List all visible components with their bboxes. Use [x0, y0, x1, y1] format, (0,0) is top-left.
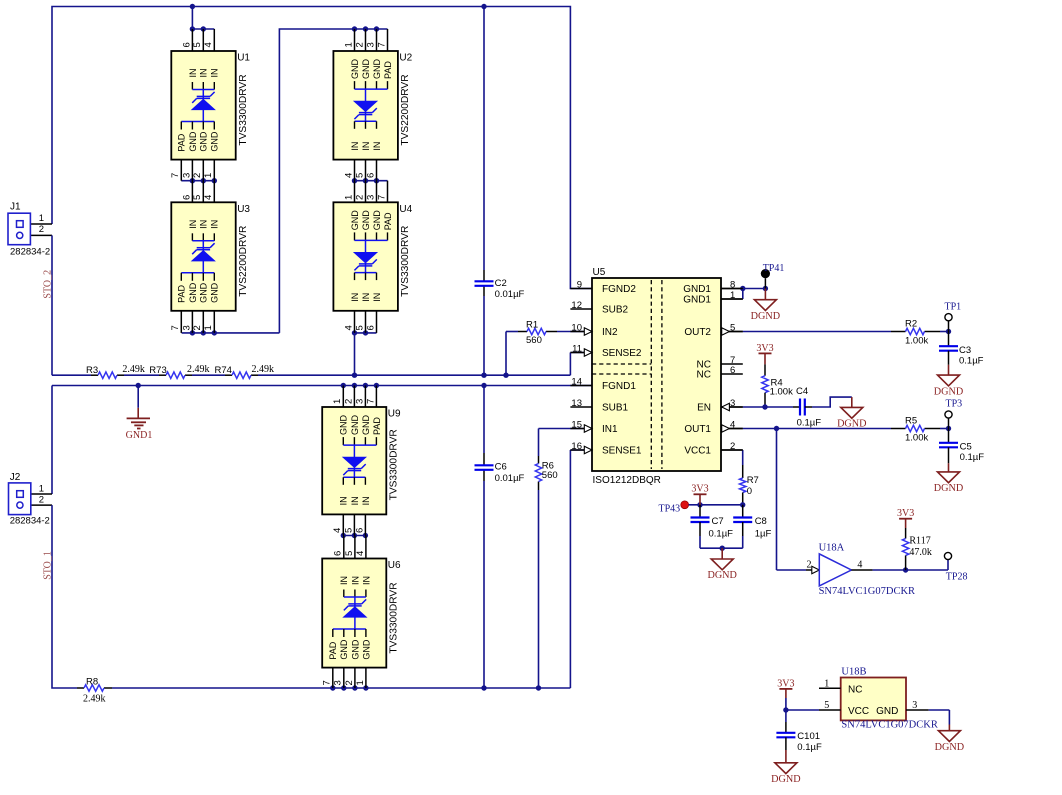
- svg-text:IN: IN: [372, 142, 382, 151]
- svg-text:DGND: DGND: [935, 742, 964, 753]
- svg-text:J2: J2: [10, 472, 21, 483]
- svg-text:0.01µF: 0.01µF: [495, 473, 525, 484]
- svg-text:3: 3: [912, 700, 917, 711]
- net label STO_1: [43, 551, 54, 580]
- ground DGND at C3: [934, 365, 963, 398]
- capacitor C101 0.1uF: [776, 710, 822, 753]
- svg-text:7: 7: [365, 399, 376, 404]
- buffer U18B SN74LVC1G07DCKR: [819, 667, 938, 731]
- svg-text:IN: IN: [350, 293, 360, 302]
- junction top rail at U1 column: [190, 4, 195, 9]
- svg-text:SENSE2: SENSE2: [602, 348, 642, 359]
- svg-text:2: 2: [807, 560, 812, 571]
- junction FGND1 at C6 column: [481, 383, 486, 388]
- svg-text:560: 560: [542, 470, 558, 481]
- svg-text:0.1µF: 0.1µF: [960, 452, 985, 463]
- wire STO_1 left rail: [51, 386, 53, 495]
- testpoint TP3: [945, 399, 962, 429]
- svg-text:47.0k: 47.0k: [909, 547, 932, 558]
- wire U1 pins 6 5 4 tie bus: [190, 7, 215, 32]
- wire U3 bottom bus: [182, 330, 280, 335]
- svg-text:2: 2: [39, 224, 44, 235]
- svg-text:IN: IN: [361, 496, 371, 505]
- svg-text:TVS3300DRVR: TVS3300DRVR: [389, 582, 400, 653]
- svg-text:3V3: 3V3: [691, 484, 708, 495]
- svg-text:IN: IN: [361, 576, 371, 585]
- svg-text:GND: GND: [361, 59, 371, 80]
- svg-text:PAD: PAD: [383, 212, 393, 230]
- TVS diode U4 TVS3300DRVR: [333, 181, 412, 333]
- svg-text:PAD: PAD: [383, 61, 393, 79]
- wire U4 bottom bus to SENSE2 row: [352, 330, 377, 375]
- svg-text:C7: C7: [712, 516, 724, 527]
- svg-text:3: 3: [333, 680, 344, 685]
- wire EN row: [721, 404, 793, 409]
- junction bottom rail at C6 column: [481, 685, 486, 690]
- wire VCC1 to R7: [721, 450, 743, 465]
- svg-text:1: 1: [39, 483, 44, 494]
- svg-text:ISO1212DBQR: ISO1212DBQR: [593, 475, 661, 486]
- svg-text:TVS3300DRVR: TVS3300DRVR: [400, 226, 411, 297]
- svg-text:R73: R73: [149, 365, 166, 376]
- svg-text:GND: GND: [210, 131, 220, 152]
- svg-text:STO_1: STO_1: [43, 551, 54, 580]
- svg-text:GND: GND: [350, 415, 360, 436]
- resistor R1 560: [526, 320, 546, 346]
- junction SENSE2 row at U4 column: [352, 373, 357, 378]
- wire FGND1 row: [52, 385, 592, 387]
- svg-text:R2: R2: [905, 319, 917, 330]
- svg-text:5: 5: [354, 173, 365, 178]
- resistor R8 2.49k: [83, 677, 106, 705]
- capacitor C5 0.1uF: [939, 429, 984, 464]
- ground DGND at TP41: [751, 289, 780, 322]
- junction FGND1 at GND1 branch: [136, 383, 141, 388]
- svg-text:U1: U1: [237, 53, 250, 64]
- svg-text:0.1µF: 0.1µF: [959, 355, 984, 366]
- svg-text:U2: U2: [399, 53, 412, 64]
- svg-text:U9: U9: [388, 409, 401, 420]
- svg-text:IN: IN: [188, 69, 198, 78]
- svg-text:TP28: TP28: [946, 572, 968, 583]
- ground DGND at C7 C8: [707, 548, 736, 581]
- svg-text:5: 5: [192, 195, 203, 200]
- svg-text:2: 2: [343, 399, 354, 404]
- TVS diode U2 TVS2200DRVR: [333, 29, 412, 181]
- testpoint TP41: [761, 263, 785, 289]
- svg-text:1µF: 1µF: [755, 529, 772, 540]
- svg-text:282834-2: 282834-2: [10, 247, 50, 258]
- svg-text:1.00k: 1.00k: [770, 386, 793, 397]
- svg-text:IN1: IN1: [602, 424, 618, 435]
- svg-text:C6: C6: [495, 462, 507, 473]
- svg-text:5: 5: [343, 528, 354, 533]
- svg-text:282834-2: 282834-2: [10, 515, 50, 526]
- svg-text:1: 1: [343, 195, 354, 200]
- svg-text:GND: GND: [339, 415, 349, 436]
- svg-text:GND: GND: [350, 639, 360, 660]
- svg-text:DGND: DGND: [707, 570, 736, 581]
- svg-text:3: 3: [181, 173, 192, 178]
- wire C7 C8 ground tie: [700, 546, 743, 551]
- svg-text:C2: C2: [495, 278, 507, 289]
- svg-text:NC: NC: [697, 370, 711, 381]
- svg-text:C101: C101: [797, 731, 820, 742]
- svg-text:TP41: TP41: [763, 263, 785, 274]
- svg-text:R1: R1: [526, 320, 538, 331]
- resistor R4 1.00k: [762, 364, 793, 407]
- svg-text:4: 4: [355, 551, 366, 556]
- svg-text:U4: U4: [399, 204, 412, 215]
- wire STO_1 left rail lower and bottom rail with R8: [52, 450, 592, 688]
- svg-text:13: 13: [571, 398, 582, 409]
- svg-text:14: 14: [571, 376, 582, 387]
- svg-text:SN74LVC1G07DCKR: SN74LVC1G07DCKR: [819, 586, 915, 597]
- junction OUT1 at TP3: [946, 426, 951, 431]
- svg-text:3: 3: [365, 195, 376, 200]
- junction OUT2 at TP1: [946, 329, 951, 334]
- svg-text:4: 4: [203, 195, 214, 200]
- svg-text:1.00k: 1.00k: [905, 336, 928, 347]
- ground DGND at C4: [837, 397, 866, 430]
- capacitor C3 0.1uF: [939, 332, 984, 367]
- svg-text:4: 4: [343, 173, 354, 178]
- svg-text:TP3: TP3: [946, 399, 963, 410]
- svg-text:4: 4: [343, 325, 354, 330]
- svg-text:GND1: GND1: [683, 284, 711, 295]
- svg-text:GND: GND: [188, 282, 198, 303]
- svg-text:IN2: IN2: [602, 327, 618, 338]
- resistor R73 2.49k: [149, 364, 209, 379]
- wire C4 to DGND: [812, 397, 852, 407]
- resistor R2 1.00k: [905, 319, 928, 347]
- svg-text:TP1: TP1: [945, 301, 962, 312]
- junction SENSE2 row at R1 branch: [503, 373, 508, 378]
- ground GND1 symbol: [126, 386, 153, 442]
- svg-text:4: 4: [332, 528, 343, 533]
- ground DGND at C5: [934, 463, 963, 494]
- svg-text:C8: C8: [755, 516, 767, 527]
- ground DGND at U18B pin 3: [935, 725, 964, 753]
- wire J2 pin 1: [23, 493, 52, 495]
- svg-text:IN: IN: [188, 220, 198, 229]
- wire J1 pin 2: [23, 234, 52, 236]
- svg-text:1: 1: [203, 325, 214, 330]
- svg-text:3: 3: [181, 325, 192, 330]
- svg-text:5: 5: [730, 322, 735, 333]
- svg-text:3: 3: [354, 399, 365, 404]
- svg-text:2: 2: [354, 195, 365, 200]
- svg-text:3: 3: [365, 42, 376, 47]
- svg-text:TP43: TP43: [659, 504, 681, 515]
- wire U18A output to R117 and TP28: [873, 560, 948, 573]
- svg-text:GND: GND: [210, 282, 220, 303]
- wire SENSE2 row with R3 R73 R74: [52, 353, 592, 376]
- ground DGND at C101: [771, 750, 800, 785]
- testpoint TP28: [944, 552, 967, 582]
- svg-text:NC: NC: [848, 684, 862, 695]
- svg-text:U18A: U18A: [819, 543, 845, 554]
- svg-text:GND1: GND1: [126, 430, 153, 441]
- svg-text:3: 3: [730, 398, 735, 409]
- power 3V3 at TP43: [691, 484, 708, 505]
- svg-text:7: 7: [170, 173, 181, 178]
- resistor R74 2.49k: [215, 364, 275, 379]
- isolator U5 ISO1212DBQR: [570, 267, 742, 486]
- svg-text:2.49k: 2.49k: [187, 364, 210, 375]
- svg-text:2: 2: [354, 42, 365, 47]
- net label STO_2: [42, 270, 53, 299]
- svg-text:GND: GND: [350, 210, 360, 231]
- svg-text:4: 4: [857, 560, 862, 571]
- svg-text:GND: GND: [199, 282, 209, 303]
- svg-text:R7: R7: [747, 475, 759, 486]
- svg-text:2.49k: 2.49k: [252, 364, 275, 375]
- svg-text:TVS2200DRVR: TVS2200DRVR: [400, 74, 411, 145]
- svg-text:1: 1: [730, 290, 735, 301]
- svg-text:11: 11: [572, 343, 582, 354]
- svg-text:10: 10: [571, 322, 582, 333]
- power 3V3 at U18B: [777, 678, 794, 710]
- svg-text:TVS3300DRVR: TVS3300DRVR: [238, 74, 249, 145]
- svg-text:IN: IN: [339, 576, 349, 585]
- svg-text:GND: GND: [876, 706, 898, 717]
- testpoint TP1: [945, 301, 962, 331]
- svg-text:DGND: DGND: [751, 311, 780, 322]
- svg-text:GND: GND: [350, 59, 360, 80]
- svg-text:6: 6: [354, 528, 365, 533]
- svg-text:VCC: VCC: [848, 706, 869, 717]
- svg-text:PAD: PAD: [372, 417, 382, 435]
- svg-text:IN: IN: [361, 142, 371, 151]
- svg-text:TVS3300DRVR: TVS3300DRVR: [389, 429, 400, 500]
- svg-text:IN: IN: [199, 220, 209, 229]
- svg-text:1: 1: [203, 173, 214, 178]
- TVS diode U6 TVS3300DRVR: [322, 536, 401, 689]
- capacitor C4 0.1uF: [793, 386, 821, 429]
- svg-text:1: 1: [343, 42, 354, 47]
- svg-text:PAD: PAD: [328, 641, 338, 659]
- svg-text:IN: IN: [350, 142, 360, 151]
- svg-text:5: 5: [344, 551, 355, 556]
- svg-text:U5: U5: [593, 267, 606, 278]
- svg-text:DGND: DGND: [934, 483, 963, 494]
- svg-text:R8: R8: [86, 677, 98, 688]
- svg-text:OUT2: OUT2: [684, 327, 711, 338]
- capacitor C2 0.01uF with connecting wire: [475, 7, 525, 376]
- svg-text:2: 2: [192, 325, 203, 330]
- svg-text:0.1µF: 0.1µF: [797, 418, 822, 429]
- wire GND pin 3 to DGND: [929, 710, 950, 725]
- svg-text:SN74LVC1G07DCKR: SN74LVC1G07DCKR: [841, 720, 937, 731]
- svg-text:U3: U3: [237, 204, 250, 215]
- connector J1 282834-2: [8, 202, 50, 258]
- svg-text:0.1µF: 0.1µF: [709, 529, 734, 540]
- junction FGND1 at U9 pins: [341, 383, 380, 388]
- svg-text:C5: C5: [960, 442, 972, 453]
- svg-text:7: 7: [376, 195, 387, 200]
- wire IN1 to R6 column: [539, 429, 593, 689]
- wire OUT2 to R2 and TP1: [721, 331, 949, 333]
- svg-text:EN: EN: [697, 403, 711, 414]
- svg-text:PAD: PAD: [177, 284, 187, 302]
- svg-text:GND: GND: [339, 639, 349, 660]
- svg-text:6: 6: [333, 551, 344, 556]
- wire STO_2 top rail: [52, 7, 592, 289]
- wire R1 branch to IN2: [506, 332, 592, 376]
- svg-text:IN: IN: [350, 496, 360, 505]
- svg-text:0: 0: [747, 486, 752, 497]
- svg-text:SENSE1: SENSE1: [602, 446, 642, 457]
- svg-text:PAD: PAD: [177, 133, 187, 151]
- wire J1 pin 1: [23, 223, 52, 225]
- svg-text:GND: GND: [361, 415, 371, 436]
- svg-text:R117: R117: [909, 536, 930, 547]
- svg-text:VCC1: VCC1: [684, 446, 711, 457]
- svg-text:7: 7: [376, 42, 387, 47]
- svg-text:2: 2: [39, 495, 44, 506]
- testpoint TP43: [659, 501, 689, 515]
- wire U9-U6 interconnect bus: [341, 533, 369, 538]
- wire STO_2 left rail lower: [51, 235, 53, 375]
- svg-text:IN: IN: [199, 69, 209, 78]
- svg-text:GND1: GND1: [683, 295, 711, 306]
- wire U1-U3 interconnect bus: [181, 178, 217, 183]
- buffer U18A SN74LVC1G07DCKR: [806, 543, 915, 597]
- svg-text:R74: R74: [215, 365, 232, 376]
- svg-text:DGND: DGND: [934, 386, 963, 397]
- svg-text:16: 16: [571, 441, 582, 452]
- svg-text:5: 5: [192, 42, 203, 47]
- svg-text:J1: J1: [10, 202, 21, 213]
- capacitor C8 1uF: [733, 505, 771, 548]
- svg-text:GND: GND: [372, 59, 382, 80]
- svg-text:3V3: 3V3: [897, 508, 914, 519]
- svg-text:0.1µF: 0.1µF: [797, 742, 822, 753]
- svg-text:1: 1: [332, 399, 343, 404]
- svg-text:5: 5: [824, 700, 829, 711]
- junction top rail at C2 column: [481, 4, 486, 9]
- wire 3V3 to VCC pin 5: [783, 707, 819, 712]
- svg-text:SUB2: SUB2: [602, 305, 629, 316]
- svg-text:3V3: 3V3: [777, 678, 794, 689]
- junction SENSE2 row at C2 column: [481, 373, 486, 378]
- svg-text:C4: C4: [796, 386, 808, 397]
- svg-text:IN: IN: [372, 293, 382, 302]
- svg-text:15: 15: [571, 419, 582, 430]
- capacitor C6 0.01uF with connecting wire: [475, 386, 525, 689]
- svg-text:TVS2200DRVR: TVS2200DRVR: [238, 226, 249, 297]
- svg-text:7: 7: [322, 680, 333, 685]
- svg-text:2: 2: [730, 441, 735, 452]
- svg-text:6: 6: [181, 195, 192, 200]
- svg-text:5: 5: [354, 325, 365, 330]
- svg-text:6: 6: [365, 173, 376, 178]
- svg-text:IN: IN: [210, 220, 220, 229]
- svg-text:IN: IN: [339, 496, 349, 505]
- svg-text:GND: GND: [361, 639, 371, 660]
- svg-text:12: 12: [571, 300, 582, 311]
- svg-text:4: 4: [730, 419, 735, 430]
- svg-text:1.00k: 1.00k: [905, 433, 928, 444]
- TVS diode U9 TVS3300DRVR: [322, 386, 401, 536]
- svg-text:GND: GND: [199, 131, 209, 152]
- svg-text:8: 8: [730, 279, 735, 290]
- svg-text:R5: R5: [905, 416, 917, 427]
- svg-text:U6: U6: [388, 560, 401, 571]
- svg-text:6: 6: [181, 42, 192, 47]
- TVS diode U3 TVS2200DRVR: [170, 181, 250, 333]
- svg-text:GND: GND: [188, 131, 198, 152]
- svg-text:2.49k: 2.49k: [122, 364, 144, 375]
- resistor R6 560: [535, 461, 557, 482]
- svg-text:FGND1: FGND1: [602, 381, 636, 392]
- wire U2-U4 interconnect bus: [352, 178, 388, 183]
- wire U2 pins 1 2 3 7 tie bus: [279, 26, 387, 333]
- TVS diode U1 TVS3300DRVR: [170, 29, 250, 181]
- svg-text:1: 1: [824, 678, 829, 689]
- svg-text:0.01µF: 0.01µF: [495, 289, 525, 300]
- svg-text:6: 6: [730, 365, 735, 376]
- svg-text:R3: R3: [86, 365, 98, 376]
- power 3V3 at R4: [756, 343, 773, 365]
- connector J2 282834-2: [9, 472, 50, 527]
- svg-text:2: 2: [192, 173, 203, 178]
- svg-text:7: 7: [170, 325, 181, 330]
- svg-text:SUB1: SUB1: [602, 403, 629, 414]
- junction OUT1 at U18A branch: [774, 426, 779, 431]
- svg-text:1: 1: [39, 213, 44, 224]
- svg-text:560: 560: [526, 335, 542, 346]
- svg-text:FGND2: FGND2: [602, 284, 636, 295]
- wire GND1 pins 8 and 1 to TP41 and DGND: [721, 286, 768, 299]
- svg-text:3V3: 3V3: [756, 343, 773, 354]
- svg-text:GND: GND: [372, 210, 382, 231]
- capacitor C7 0.1uF: [691, 505, 734, 548]
- svg-text:GND: GND: [361, 210, 371, 231]
- svg-text:2: 2: [344, 680, 355, 685]
- svg-text:DGND: DGND: [771, 774, 800, 785]
- svg-text:U18B: U18B: [841, 667, 866, 678]
- wire J2 pin 2: [23, 504, 52, 506]
- svg-text:6: 6: [365, 325, 376, 330]
- svg-text:9: 9: [577, 279, 582, 290]
- svg-text:IN: IN: [361, 293, 371, 302]
- svg-text:IN: IN: [210, 69, 220, 78]
- resistor R7 0: [740, 465, 759, 505]
- svg-text:IN: IN: [350, 576, 360, 585]
- junction bottom rail at R6 column: [536, 685, 541, 690]
- svg-text:STO_2: STO_2: [42, 270, 53, 299]
- wire TP43 to C7 C8 row: [689, 502, 746, 507]
- power 3V3 at R117: [897, 508, 914, 528]
- wire OUT1 to R5 TP3 and U18A: [721, 429, 949, 571]
- junction bottom rail at U6 pins: [330, 685, 369, 690]
- resistor R3 2.49k: [86, 364, 145, 379]
- svg-text:2.49k: 2.49k: [83, 694, 106, 705]
- resistor R117 47.0k: [902, 528, 932, 570]
- svg-text:OUT1: OUT1: [684, 424, 711, 435]
- svg-text:4: 4: [203, 42, 214, 47]
- resistor R5 1.00k: [905, 416, 928, 444]
- svg-text:1: 1: [355, 680, 366, 685]
